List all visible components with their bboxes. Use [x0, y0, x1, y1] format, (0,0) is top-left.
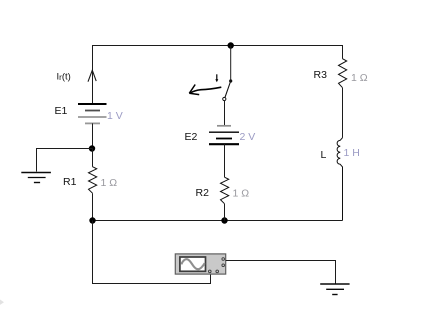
wire E1 to node A — [92, 123, 94, 148]
svg-text:1 Ω: 1 Ω — [351, 72, 368, 84]
wire R3 to L — [342, 88, 344, 138]
svg-text:R2: R2 — [196, 187, 210, 199]
wire top bus from E1 branch to R3 branch — [92, 45, 343, 47]
node bottom-left junction — [89, 217, 95, 223]
svg-text:Ir(t): Ir(t) — [57, 72, 71, 83]
node top junction — [228, 42, 234, 48]
switch S1 — [223, 79, 233, 100]
battery E1 — [78, 104, 107, 123]
wire R2 to bottom bus — [224, 204, 226, 221]
wire middle branch upper — [230, 46, 232, 81]
wire bottom bus — [92, 220, 343, 222]
svg-text:E2: E2 — [185, 131, 198, 143]
wire node A to R1 — [92, 149, 94, 167]
annotation small down arrow — [215, 74, 218, 82]
node A junction — [89, 145, 95, 151]
inductor L — [337, 138, 342, 221]
svg-text:1 Ω: 1 Ω — [233, 188, 250, 200]
resistor R2 — [221, 177, 229, 204]
decorative faint cursor at left edge — [0, 300, 4, 305]
svg-text:R1: R1 — [63, 176, 77, 188]
wire R1 to bottom bus — [92, 193, 94, 220]
svg-text:1 H: 1 H — [344, 147, 360, 159]
wire right branch upper — [342, 45, 344, 59]
svg-text:1 Ω: 1 Ω — [101, 177, 118, 189]
svg-text:L: L — [321, 149, 327, 161]
ground left — [21, 173, 51, 183]
wire E2 to R2 — [224, 144, 226, 177]
wire left branch upper — [92, 45, 94, 104]
resistor R1 — [89, 167, 97, 194]
wire oscilloscope right terminal to right ground — [226, 261, 336, 284]
ground right — [320, 284, 349, 295]
wire node A to left ground — [37, 149, 93, 172]
current direction arrow — [88, 70, 96, 82]
svg-text:2 V: 2 V — [240, 131, 256, 143]
annotation curved arrow — [189, 85, 221, 95]
svg-text:E1: E1 — [55, 105, 68, 117]
svg-text:R3: R3 — [314, 69, 328, 81]
svg-text:1 V: 1 V — [107, 110, 123, 122]
wire switch to E2 — [224, 101, 226, 126]
oscilloscope XSC1 body — [175, 254, 225, 274]
resistor R3 — [339, 59, 347, 88]
wire to oscilloscope bottom terminal — [93, 221, 211, 284]
battery E2 — [209, 126, 239, 144]
node bottom-middle junction — [221, 217, 227, 223]
